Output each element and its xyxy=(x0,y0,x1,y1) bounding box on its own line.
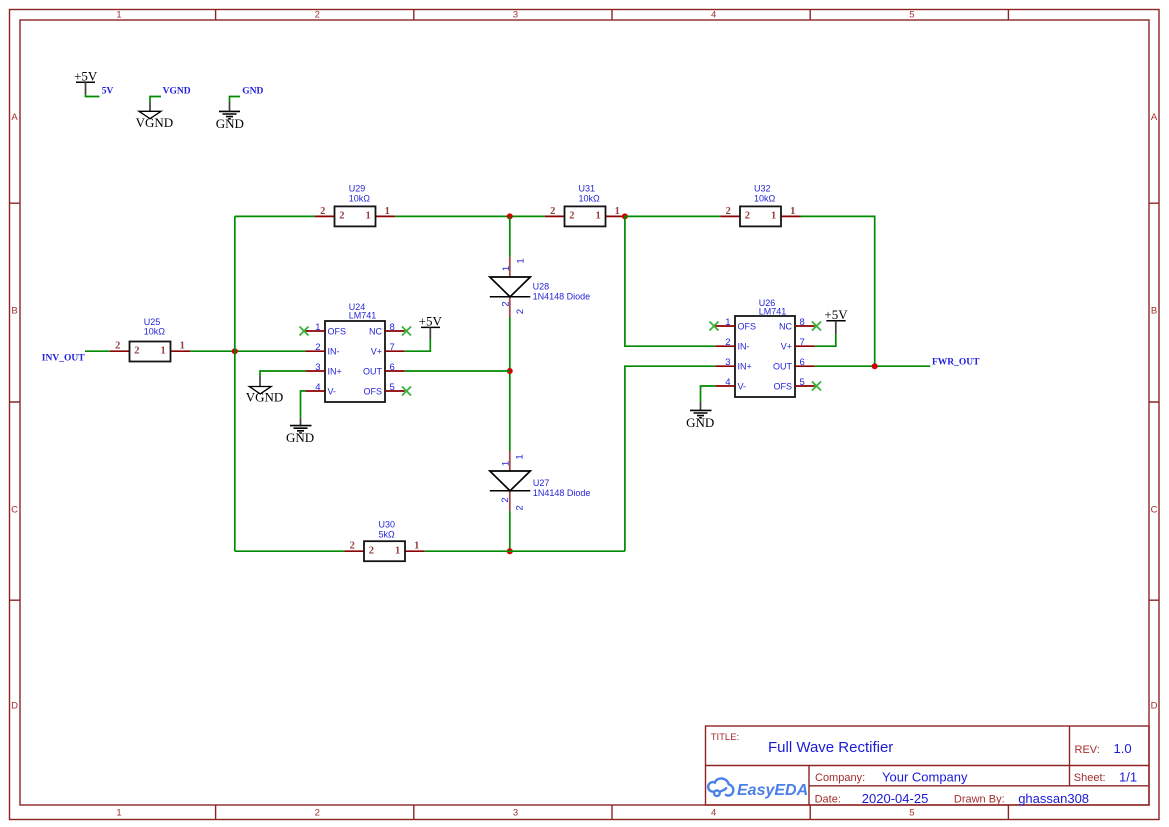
svg-text:1: 1 xyxy=(725,317,730,328)
svg-text:IN-: IN- xyxy=(738,342,750,352)
svg-text:1: 1 xyxy=(771,211,776,222)
ground flag GND at U26 V- xyxy=(686,402,714,430)
svg-text:LM741: LM741 xyxy=(349,310,377,320)
svg-text:2: 2 xyxy=(550,206,555,217)
wire net 5V stub xyxy=(86,94,100,97)
net flag VGND at U24 IN+ xyxy=(246,377,284,405)
svg-text:2: 2 xyxy=(315,808,320,819)
wire U24 OUT to diode column xyxy=(405,370,510,372)
svg-text:VGND: VGND xyxy=(163,87,191,97)
resistor U31 10k xyxy=(545,184,625,227)
svg-text:1: 1 xyxy=(414,541,419,552)
svg-text:1: 1 xyxy=(395,545,400,556)
diode U28 1N4148 xyxy=(490,257,590,317)
svg-text:Full Wave Rectifier: Full Wave Rectifier xyxy=(768,739,893,756)
svg-text:1/1: 1/1 xyxy=(1119,769,1137,784)
svg-text:2: 2 xyxy=(339,211,344,222)
svg-text:B: B xyxy=(11,306,17,317)
svg-text:5kΩ: 5kΩ xyxy=(379,529,396,539)
svg-text:8: 8 xyxy=(390,322,395,333)
svg-text:U28: U28 xyxy=(533,282,550,292)
svg-text:4: 4 xyxy=(711,808,716,819)
svg-text:OFS: OFS xyxy=(328,326,347,336)
junction diode branch top xyxy=(507,213,513,219)
wire left vertical feedback xyxy=(234,216,236,551)
power flag +5V (top left) xyxy=(74,69,98,95)
svg-text:V-: V- xyxy=(738,381,747,391)
svg-text:EasyEDA: EasyEDA xyxy=(737,782,808,799)
svg-text:+5V: +5V xyxy=(419,314,443,329)
svg-text:3: 3 xyxy=(513,808,518,819)
ground flag GND (top left) xyxy=(216,102,244,131)
svg-text:GND: GND xyxy=(286,430,314,445)
svg-text:5: 5 xyxy=(800,377,805,388)
svg-text:2: 2 xyxy=(320,206,325,217)
svg-text:Sheet:: Sheet: xyxy=(1074,772,1106,784)
svg-text:3: 3 xyxy=(513,10,518,21)
no-connect X U26 pin5 xyxy=(812,382,821,391)
svg-text:5: 5 xyxy=(390,382,395,393)
wire U31 node down to U26 IN- xyxy=(625,216,715,346)
svg-text:U27: U27 xyxy=(533,478,550,488)
svg-text:6: 6 xyxy=(390,362,395,373)
junction U24 OUT node on diode column xyxy=(507,368,513,374)
svg-text:U30: U30 xyxy=(379,520,396,530)
svg-text:GND: GND xyxy=(216,116,244,131)
svg-text:2: 2 xyxy=(315,342,320,353)
wire bottom right corner up to U26 IN+ xyxy=(625,366,715,551)
svg-text:4: 4 xyxy=(315,382,320,393)
svg-text:10kΩ: 10kΩ xyxy=(579,193,601,203)
wire +5V to U26 V+ xyxy=(815,334,836,346)
svg-text:A: A xyxy=(1151,112,1158,123)
svg-text:4: 4 xyxy=(725,377,730,388)
svg-text:1: 1 xyxy=(790,206,795,217)
svg-text:D: D xyxy=(1151,701,1158,712)
wire top from left vertical to U29 xyxy=(235,215,315,217)
svg-text:1: 1 xyxy=(501,461,512,466)
svg-text:1: 1 xyxy=(501,266,512,271)
svg-text:1: 1 xyxy=(615,206,620,217)
power flag +5V at U24 V+ xyxy=(419,314,443,339)
op-amp U24 LM741 xyxy=(305,302,404,402)
svg-text:2: 2 xyxy=(515,309,526,314)
column ticks top xyxy=(216,10,1009,20)
svg-text:1: 1 xyxy=(595,211,600,222)
no-connect X U24 pin5 xyxy=(402,387,411,396)
wire U24 V- to GND xyxy=(301,391,306,418)
junction at left vertical and IN- wire xyxy=(232,348,238,354)
svg-text:2: 2 xyxy=(315,10,320,21)
svg-text:1N4148 Diode: 1N4148 Diode xyxy=(533,291,591,301)
resistor U29 10k xyxy=(315,184,396,227)
svg-text:2: 2 xyxy=(569,211,574,222)
svg-text:IN+: IN+ xyxy=(738,361,752,371)
svg-text:VGND: VGND xyxy=(136,115,174,130)
svg-text:INV_OUT: INV_OUT xyxy=(42,353,85,363)
svg-text:10kΩ: 10kΩ xyxy=(349,193,371,203)
svg-text:Company:: Company: xyxy=(815,772,865,784)
svg-text:1: 1 xyxy=(315,322,320,333)
svg-text:4: 4 xyxy=(711,10,716,21)
svg-text:GND: GND xyxy=(242,87,263,97)
svg-text:10kΩ: 10kΩ xyxy=(144,327,166,337)
resistor U32 10k xyxy=(720,184,800,227)
svg-text:2: 2 xyxy=(134,345,139,356)
resistor U30 5k xyxy=(344,520,425,562)
svg-text:OFS: OFS xyxy=(738,321,757,331)
svg-text:2: 2 xyxy=(350,541,355,552)
svg-text:8: 8 xyxy=(800,317,805,328)
svg-text:1: 1 xyxy=(116,10,121,21)
diode U27 1N4148 xyxy=(490,451,591,511)
wire U31 pin1 to U32 pin2 xyxy=(625,215,720,217)
svg-text:OUT: OUT xyxy=(363,366,383,376)
svg-text:10kΩ: 10kΩ xyxy=(754,193,776,203)
svg-text:1: 1 xyxy=(160,345,165,356)
resistor U25 10k xyxy=(110,317,191,362)
svg-text:D: D xyxy=(11,701,18,712)
svg-text:NC: NC xyxy=(369,326,382,336)
svg-text:1: 1 xyxy=(516,258,527,263)
svg-text:3: 3 xyxy=(315,362,320,373)
wire U26 OUT to FWR_OUT xyxy=(815,365,931,367)
svg-text:1.0: 1.0 xyxy=(1114,741,1132,756)
row ticks left xyxy=(10,203,20,600)
svg-text:+5V: +5V xyxy=(824,307,848,322)
svg-text:2: 2 xyxy=(500,497,511,502)
no-connect X U26 pin8 xyxy=(812,322,821,331)
no-connect X U24 pin8 xyxy=(402,327,411,336)
svg-text:5V: 5V xyxy=(102,87,114,97)
ground flag GND at U24 V- xyxy=(286,418,314,445)
svg-text:2: 2 xyxy=(745,211,750,222)
svg-text:5: 5 xyxy=(909,10,914,21)
svg-text:U25: U25 xyxy=(144,317,161,327)
svg-text:V+: V+ xyxy=(371,347,382,357)
svg-text:2: 2 xyxy=(115,341,120,352)
no-connect X U26 pin1 xyxy=(710,322,719,331)
svg-text:A: A xyxy=(11,112,18,123)
svg-text:ghassan308: ghassan308 xyxy=(1018,791,1089,806)
title block rev column divider xyxy=(1069,726,1071,786)
svg-text:C: C xyxy=(11,505,18,516)
svg-text:+5V: +5V xyxy=(74,69,98,84)
svg-text:1: 1 xyxy=(515,454,526,459)
svg-text:1: 1 xyxy=(116,808,121,819)
svg-text:2: 2 xyxy=(515,505,526,510)
svg-text:OUT: OUT xyxy=(773,361,793,371)
svg-text:Date:: Date: xyxy=(815,794,841,806)
title block outline xyxy=(706,726,1150,805)
svg-text:2020-04-25: 2020-04-25 xyxy=(862,791,929,806)
svg-text:6: 6 xyxy=(800,357,805,368)
svg-text:U32: U32 xyxy=(754,184,771,194)
wire U27 anode down to bottom wire xyxy=(509,511,511,551)
svg-text:LM741: LM741 xyxy=(759,306,787,316)
wire +5V to U24 V+ xyxy=(405,339,431,351)
op-amp U26 LM741 xyxy=(715,298,814,397)
svg-text:NC: NC xyxy=(779,321,792,331)
title block logo cell divider xyxy=(808,766,810,806)
svg-text:C: C xyxy=(1151,505,1158,516)
svg-text:REV:: REV: xyxy=(1075,744,1100,756)
junction FWR_OUT node xyxy=(872,363,878,369)
svg-text:2: 2 xyxy=(501,301,512,306)
EasyEDA logo cloud icon xyxy=(708,778,733,796)
svg-text:IN-: IN- xyxy=(328,347,340,357)
svg-text:TITLE:: TITLE: xyxy=(711,732,740,743)
svg-text:Drawn By:: Drawn By: xyxy=(954,794,1005,806)
svg-text:FWR_OUT: FWR_OUT xyxy=(932,357,980,367)
wire U24 IN+ to VGND xyxy=(260,371,305,377)
wire U29 pin1 to U31 pin2 xyxy=(395,215,544,217)
row ticks right xyxy=(1149,203,1159,600)
svg-text:VGND: VGND xyxy=(246,390,284,405)
svg-text:5: 5 xyxy=(909,808,914,819)
wire U28 cathode to OUT node and down to U27 xyxy=(509,317,511,451)
wire top junction down to diode U28 xyxy=(509,216,511,256)
svg-text:B: B xyxy=(1151,306,1157,317)
svg-text:2: 2 xyxy=(726,206,731,217)
no-connect X U24 pin1 xyxy=(300,327,309,336)
svg-text:1N4148 Diode: 1N4148 Diode xyxy=(533,488,591,498)
svg-text:7: 7 xyxy=(390,342,395,353)
wire U30 pin1 to bottom right corner xyxy=(425,550,625,552)
svg-text:OFS: OFS xyxy=(773,381,792,391)
wire bottom from left vertical to U30 xyxy=(235,550,344,552)
svg-text:IN+: IN+ xyxy=(328,366,342,376)
wire INV_OUT to U25 pin2 xyxy=(85,350,110,352)
svg-text:1: 1 xyxy=(385,206,390,217)
wire net GND stub xyxy=(230,97,241,103)
junction U31 pin1 node xyxy=(622,213,628,219)
svg-text:7: 7 xyxy=(800,337,805,348)
svg-text:Your Company: Your Company xyxy=(882,769,968,784)
svg-text:3: 3 xyxy=(725,357,730,368)
svg-text:GND: GND xyxy=(686,415,714,430)
column ticks bottom xyxy=(216,805,1009,820)
svg-text:V+: V+ xyxy=(781,342,792,352)
wire U26 V- to GND xyxy=(701,386,716,402)
wire net VGND stub xyxy=(150,97,161,103)
svg-text:U29: U29 xyxy=(349,184,366,194)
title block row divider xyxy=(706,765,1150,767)
svg-text:2: 2 xyxy=(725,337,730,348)
svg-text:OFS: OFS xyxy=(363,386,382,396)
svg-text:V-: V- xyxy=(328,386,337,396)
wire U25 pin1 to U24 IN- xyxy=(190,350,305,352)
svg-text:1: 1 xyxy=(365,211,370,222)
power flag +5V at U26 V+ xyxy=(824,307,848,334)
svg-text:U31: U31 xyxy=(579,184,596,194)
junction bottom wire at diode column xyxy=(507,548,513,554)
svg-text:1: 1 xyxy=(180,341,185,352)
svg-text:2: 2 xyxy=(369,545,374,556)
title block date row divider xyxy=(809,785,1149,787)
net flag VGND (top left) xyxy=(136,102,174,130)
wire U32 pin1 to right vertical xyxy=(801,216,875,366)
